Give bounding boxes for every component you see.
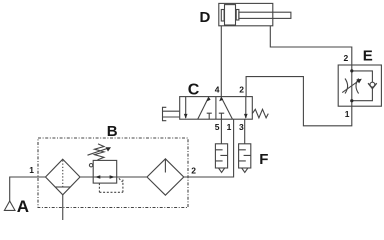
svg-text:E: E [363,47,373,64]
svg-text:4: 4 [215,85,220,95]
svg-text:D: D [200,9,211,26]
svg-text:1: 1 [345,109,350,119]
svg-text:A: A [17,197,29,216]
svg-text:3: 3 [239,122,244,132]
svg-text:F: F [259,151,268,168]
svg-text:B: B [107,123,118,140]
svg-text:C: C [188,81,200,98]
svg-text:5: 5 [215,122,220,132]
svg-text:2: 2 [344,53,349,63]
svg-text:2: 2 [239,85,244,95]
svg-text:2: 2 [191,166,196,176]
svg-text:1: 1 [29,165,34,175]
svg-text:1: 1 [227,122,232,132]
